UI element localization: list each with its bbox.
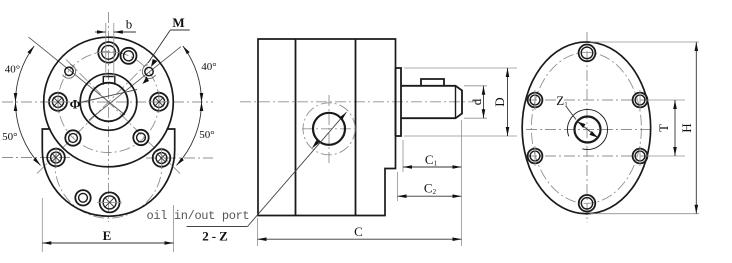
- svg-text:T: T: [656, 124, 671, 132]
- body bolt hole bottom: [97, 192, 122, 212]
- flange bolt hole top-right: [121, 48, 137, 64]
- shaft key: [421, 79, 444, 86]
- dimension C extension lines: [257, 218, 259, 246]
- threaded hole M (upper-right): [142, 59, 157, 84]
- dimension H line: [695, 42, 697, 214]
- dimension C2 line: [398, 195, 462, 197]
- body bolt hole left: [47, 147, 65, 168]
- dimension H extension lines: [590, 41, 699, 43]
- horizontal centerline: [526, 129, 652, 131]
- svg-text:M: M: [172, 15, 184, 30]
- shaft centerline: [240, 101, 477, 103]
- dimension C1 line: [403, 166, 462, 168]
- bolt circle oval path: [531, 52, 641, 203]
- flange bolt hole right: [148, 91, 170, 113]
- dimension E line: [42, 242, 173, 244]
- dimension D extension lines: [404, 67, 517, 69]
- port leader arrow lower-left: [312, 140, 319, 148]
- pump housing outline: [258, 39, 396, 216]
- front cover parting line: [295, 39, 297, 216]
- svg-text:oil in/out port: oil in/out port: [147, 209, 250, 223]
- 45deg diagonal centerline (upper-left to lower-right): [66, 60, 180, 174]
- center boss circle: [80, 74, 137, 131]
- upper bolt row centerline: [526, 99, 648, 101]
- dimension d extension lines: [464, 85, 487, 87]
- rear bolt hole lower-right: [633, 146, 648, 166]
- bearing boss: [396, 68, 402, 136]
- dimension T extension lines: [646, 99, 685, 101]
- leader M: [170, 29, 189, 31]
- rear bolt hole upper-left: [528, 90, 543, 110]
- 45deg diagonal centerline (upper-right to lower-left): [37, 60, 151, 174]
- Z1 leader: [567, 107, 577, 120]
- port leader arrow upper-right: [339, 112, 346, 120]
- dimension d line: [483, 86, 485, 118]
- rear bolt hole bottom: [579, 195, 596, 212]
- svg-text:d: d: [469, 98, 484, 105]
- 143deg centerline through left threaded hole: [29, 37, 126, 115]
- horizontal centerline: [2, 101, 213, 103]
- body bolt circle arc: [55, 157, 162, 218]
- 37deg centerline through threaded hole M: [89, 47, 181, 120]
- front flange circle: [44, 37, 174, 167]
- rear shaft bore: [575, 117, 601, 143]
- keyway slot: [103, 77, 115, 85]
- body bolt hole right: [153, 148, 171, 169]
- svg-text:50°: 50°: [199, 129, 214, 141]
- body lower-hole horizontal centerline right: [146, 157, 213, 159]
- threaded hole upper-left: [63, 64, 76, 78]
- body pin hole bottom-left: [75, 190, 90, 205]
- rear bolt hole top: [579, 45, 596, 62]
- flange bolt hole lower-left: [65, 130, 80, 145]
- dimension C line: [258, 238, 462, 240]
- dimension arc 50deg left: [16, 102, 41, 165]
- dimension C2 extension line: [397, 172, 399, 201]
- Z1 arrow lower-right: [590, 131, 598, 138]
- flange bolt hole top: [96, 42, 121, 63]
- svg-text:E: E: [103, 228, 112, 243]
- flange bolt hole left: [47, 91, 69, 113]
- svg-text:2-Z: 2-Z: [202, 229, 231, 244]
- dimension T line: [674, 100, 676, 156]
- flange bolt hole lower-right: [133, 130, 148, 145]
- body lower-hole horizontal centerline left: [2, 157, 72, 159]
- dimension E extension lines: [41, 198, 43, 252]
- dimension arc 40deg right: [183, 46, 202, 102]
- vertical centerline: [586, 32, 588, 223]
- dimension D line: [507, 68, 509, 136]
- rear bolt hole lower-left: [528, 146, 543, 166]
- pump body outline (front): [42, 129, 174, 216]
- vertical centerline: [108, 12, 110, 222]
- oil port circle: [313, 113, 345, 145]
- svg-text:Φ: Φ: [70, 97, 81, 112]
- port counterbore dash-dot circle: [303, 103, 355, 155]
- rear body oval outline: [522, 42, 651, 214]
- rear bolt hole upper-right: [633, 90, 648, 110]
- port vertical centerline: [328, 95, 330, 163]
- svg-text:D: D: [492, 97, 507, 106]
- svg-text:b: b: [126, 17, 133, 32]
- lower bolt row centerline: [526, 155, 648, 157]
- svg-text:C: C: [354, 224, 363, 239]
- dimension C1 extension line: [402, 140, 404, 172]
- flange bolt circle: [58, 52, 159, 153]
- svg-text:H: H: [679, 123, 694, 132]
- dimension arc 50deg right: [177, 102, 202, 165]
- rear cover parting line: [355, 39, 357, 216]
- dimension b lines with arrows: [95, 31, 106, 33]
- bore thread arc: [568, 109, 608, 149]
- shaft bore circle: [89, 83, 128, 122]
- dimension arc 40deg left: [15, 46, 34, 102]
- oil port leader shoulder: [187, 226, 248, 228]
- phi leader line: [80, 90, 137, 103]
- oil port leader diagonal: [248, 112, 347, 226]
- Z1 arrow upper-left: [577, 122, 585, 129]
- port horizontal centerline: [302, 128, 356, 130]
- svg-text:40°: 40°: [201, 61, 216, 73]
- svg-text:50°: 50°: [2, 131, 17, 143]
- drive shaft: [401, 86, 462, 118]
- svg-text:40°: 40°: [5, 64, 20, 76]
- dimension b extension lines: [105, 23, 107, 77]
- Z1 diameter line: [577, 122, 597, 138]
